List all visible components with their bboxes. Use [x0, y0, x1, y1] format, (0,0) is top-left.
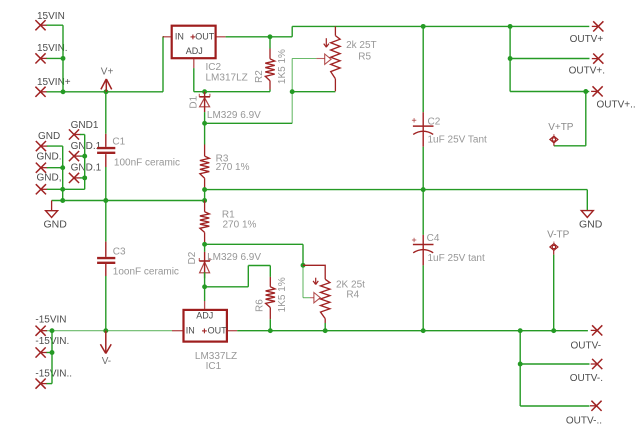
svg-text:OUTV-.: OUTV-.: [570, 373, 603, 384]
svg-text:OUTV+..: OUTV+..: [597, 99, 636, 110]
resistor R6: [266, 266, 275, 331]
junction GND. stub: [60, 165, 65, 170]
svg-text:V+TP: V+TP: [548, 122, 574, 133]
wire C2 bottom: [422, 147, 424, 190]
wire OUTV+. row: [510, 58, 589, 60]
label C4: [427, 233, 440, 244]
wire C3 top: [105, 201, 107, 242]
wire C1 top: [105, 92, 107, 134]
label 1K5 1% (R6): [277, 277, 288, 312]
junction C2 gnd: [421, 187, 426, 192]
label LM329 6.9V (D1): [207, 110, 261, 121]
svg-text:IN: IN: [186, 326, 195, 336]
wire GND row right: [205, 189, 588, 191]
svg-text:-15VIN: -15VIN: [35, 314, 66, 325]
label D1: [188, 95, 199, 108]
wire R3 top: [204, 123, 206, 144]
label LM317LZ: [206, 73, 248, 84]
label C1: [112, 137, 125, 148]
port -15VIN.: [35, 336, 69, 357]
label IC2: [206, 62, 222, 73]
wire to IC2 IN: [163, 37, 164, 92]
wire OUT row bottom: [237, 330, 588, 332]
port OUTV+: [570, 21, 604, 45]
svg-text:15VIN: 15VIN: [37, 11, 65, 22]
junction V- node: [103, 328, 108, 333]
wire C4 bottom: [422, 265, 424, 330]
junction 15VIN: [61, 56, 66, 61]
junction R1 top: [202, 198, 207, 203]
resistor R3: [200, 145, 209, 190]
port 15VIN.: [35, 43, 67, 64]
svg-text:1uF 25V Tant: 1uF 25V Tant: [428, 135, 488, 146]
svg-text:C3: C3: [113, 247, 126, 258]
ground left: [44, 201, 68, 231]
wire OUTV- branch: [519, 331, 521, 406]
junction R3 bottom: [202, 187, 207, 192]
svg-text:GND1: GND1: [71, 120, 99, 131]
wire OUTV-.. row: [520, 405, 589, 407]
label 100nF ceramic: [114, 158, 180, 169]
junction V-TP branch: [551, 328, 556, 333]
svg-text:C1: C1: [112, 137, 125, 148]
svg-text:IC2: IC2: [206, 62, 222, 73]
pin ADJ of IC1: [196, 311, 213, 321]
port GND.1 b: [69, 163, 102, 183]
junction GND row L: [60, 198, 65, 203]
junction C4 bottom: [421, 328, 426, 333]
pin IN of IC2: [163, 31, 184, 41]
port OUTV-..: [566, 401, 602, 427]
label D2: [187, 251, 198, 264]
svg-text:GND.1: GND.1: [71, 163, 102, 174]
junction R1 bottom: [202, 242, 207, 247]
svg-text:IN: IN: [175, 31, 184, 41]
capacitor C2: [412, 112, 434, 147]
wire V+TP: [554, 92, 586, 146]
wire C3 bottom: [105, 276, 107, 331]
wire OUTV-. row: [520, 363, 589, 365]
junction C2 top: [421, 24, 426, 29]
svg-text:LM329 6.9V: LM329 6.9V: [207, 252, 261, 263]
wire V+ row: [47, 91, 164, 93]
junction V+: [104, 89, 109, 94]
svg-text:1oonF ceramic: 1oonF ceramic: [113, 266, 179, 277]
junction 15VIN+: [61, 89, 66, 94]
svg-text:R4: R4: [346, 290, 359, 301]
wire OUTV+ branch vertical: [509, 26, 511, 91]
capacitor C1: [97, 134, 115, 167]
svg-text:GND: GND: [579, 218, 603, 230]
port GND.: [36, 152, 62, 173]
svg-text:OUT: OUT: [208, 326, 228, 336]
wire ADJ row: [194, 91, 270, 93]
wire D2 top: [204, 244, 206, 252]
wire R4 wiper: [303, 265, 314, 297]
wire OUT riser: [292, 26, 589, 36]
svg-text:OUT: OUT: [195, 31, 215, 41]
svg-text:270 1%: 270 1%: [216, 162, 250, 173]
adjust arrow R5: [324, 38, 329, 47]
pin ADJ of IC2: [186, 46, 203, 68]
junction R6 bottom: [268, 328, 273, 333]
wire IC1 ADJ: [204, 287, 206, 310]
pin OUT of IC2: [191, 31, 226, 41]
svg-text:ADJ: ADJ: [196, 311, 213, 321]
label LM329 6.9V (D2): [207, 252, 261, 263]
wire OUTV+.. stub: [586, 91, 590, 93]
wire D2 to R6: [205, 266, 271, 287]
svg-text:D2: D2: [187, 251, 198, 264]
junction -15VIN.: [50, 350, 55, 355]
capacitor C3: [97, 242, 115, 276]
label C2: [428, 116, 441, 127]
svg-text:OUTV-: OUTV-: [571, 341, 602, 352]
pin OUT of IC1: [202, 326, 237, 336]
port -15VIN..: [35, 368, 72, 388]
svg-text:R2: R2: [254, 70, 265, 83]
diode D2: [199, 252, 210, 278]
svg-text:OUTV-..: OUTV-..: [566, 416, 602, 427]
junction D1 bottom: [202, 121, 207, 126]
svg-text:1uF 25V tant: 1uF 25V tant: [428, 253, 485, 264]
svg-text:IC1: IC1: [206, 361, 222, 372]
wire ADJ of IC2 down: [193, 68, 195, 92]
svg-text:GND.1: GND.1: [71, 141, 102, 152]
wire 15VIN bus vertical: [47, 25, 64, 92]
wire R1-R4 row: [205, 244, 303, 265]
wire OUT row: [226, 36, 293, 38]
port GND: [36, 131, 60, 151]
potentiometer R5: [331, 26, 340, 91]
label 2K 25t: [336, 280, 365, 291]
svg-text:C4: C4: [427, 233, 440, 244]
label 270 1% (R1): [223, 219, 257, 230]
junction OUTV+ branch: [508, 24, 513, 29]
junction OUTV+. row: [508, 56, 513, 61]
junction R4 common: [301, 263, 306, 268]
junction GND.1 stub: [82, 154, 87, 159]
svg-text:270 1%: 270 1%: [223, 219, 257, 230]
junction V+TP branch: [583, 89, 588, 94]
potentiometer R4: [303, 265, 330, 330]
label 2k 25T: [346, 40, 377, 51]
svg-text:100nF ceramic: 100nF ceramic: [114, 158, 180, 169]
port OUTV+.: [569, 54, 605, 77]
port GND1: [69, 120, 99, 140]
wire wiper riser: [291, 59, 293, 124]
port 15VIN+: [35, 77, 70, 97]
svg-text:D1: D1: [188, 95, 199, 108]
label IC1: [206, 361, 222, 372]
label LM337LZ: [195, 351, 237, 362]
wire GND rows link: [204, 190, 206, 201]
label 270 1% (R3): [216, 162, 250, 173]
wire C4 top: [422, 190, 424, 235]
capacitor C4: [412, 235, 434, 266]
junction R2 top: [268, 34, 273, 39]
svg-text:LM317LZ: LM317LZ: [206, 73, 248, 84]
junction D1 top: [202, 89, 207, 94]
label 1uF 25V tant: [428, 253, 485, 264]
svg-text:LM329 6.9V: LM329 6.9V: [207, 110, 261, 121]
port GND,: [36, 173, 62, 195]
wire V-TP: [553, 250, 555, 330]
svg-text:OUTV+: OUTV+: [570, 34, 604, 45]
op-amp U-box IC1 outline: [184, 310, 227, 342]
supply V-: [100, 331, 111, 367]
label R2: [254, 70, 265, 83]
svg-text:V+: V+: [101, 66, 114, 77]
wire C1 bottom: [105, 167, 107, 201]
port OUTV+..: [591, 86, 636, 110]
svg-text:OUTV+.: OUTV+.: [569, 65, 605, 76]
junction GND.1 b stub: [82, 175, 87, 180]
wire GND row left: [52, 200, 205, 202]
testpoint V+TP: [548, 122, 574, 146]
wire D2 bottom: [204, 272, 206, 287]
svg-text:GND,: GND,: [37, 173, 62, 184]
svg-text:GND: GND: [44, 218, 68, 230]
resistor R1: [200, 201, 209, 245]
resistor R2: [265, 37, 274, 92]
port 15VIN: [35, 11, 64, 30]
junction R4 bottom: [323, 328, 328, 333]
svg-text:ADJ: ADJ: [186, 46, 203, 56]
junction wiper net: [290, 89, 295, 94]
junction OUTV- branch: [518, 328, 523, 333]
wire D1 to wiper net: [205, 122, 293, 124]
junction -15VIN bus: [50, 328, 55, 333]
port OUTV-.: [570, 359, 603, 384]
svg-text:GND: GND: [38, 131, 60, 142]
svg-text:15VIN+: 15VIN+: [37, 77, 71, 88]
label 1K5 1% (R2): [277, 49, 288, 84]
label C3: [113, 247, 126, 258]
junction GND, stub: [60, 187, 65, 192]
svg-text:-15VIN..: -15VIN..: [35, 368, 72, 379]
svg-text:V-: V-: [102, 356, 111, 367]
wire wiper net to R5 bottom: [292, 91, 335, 93]
wire D1 bottom: [204, 112, 206, 123]
svg-text:C2: C2: [428, 116, 441, 127]
junction D2 bottom: [202, 284, 207, 289]
label 1uF 25V Tant: [428, 135, 488, 146]
diode D1: [199, 92, 210, 112]
junction C1 bottom: [103, 198, 108, 203]
svg-text:GND.: GND.: [37, 152, 62, 163]
adjust arrow R4: [313, 278, 318, 285]
ground right: [579, 190, 603, 231]
junction OUTV-. row: [518, 362, 523, 367]
port GND.1: [69, 141, 102, 161]
wire -15VIN bus: [47, 331, 172, 384]
wiper arrow R4: [314, 293, 320, 303]
port OUTV-: [571, 325, 603, 351]
pin IN of IC1: [172, 326, 195, 336]
label R3: [216, 153, 229, 164]
label R6: [255, 299, 266, 312]
op-amp U-box IC2 outline: [172, 26, 216, 59]
svg-text:R6: R6: [255, 299, 266, 312]
port -15VIN: [35, 314, 66, 335]
wiper arrow R5: [325, 54, 331, 64]
label 1oonF ceramic: [113, 266, 179, 277]
svg-text:2k 25T: 2k 25T: [346, 40, 377, 51]
wire GND cluster: [47, 135, 85, 201]
supply V+: [101, 66, 114, 91]
svg-text:1K5 1%: 1K5 1%: [277, 277, 288, 312]
wire OUTV+.. row: [510, 91, 586, 93]
label R1: [222, 209, 235, 220]
wire C2 top: [422, 26, 424, 112]
testpoint V-TP: [547, 230, 570, 251]
svg-text:1K5 1%: 1K5 1%: [277, 49, 288, 84]
wire R5 wiper: [292, 58, 325, 60]
label R4: [346, 290, 359, 301]
svg-text:R5: R5: [358, 51, 371, 62]
label R5: [358, 51, 371, 62]
svg-text:V-TP: V-TP: [547, 230, 570, 241]
